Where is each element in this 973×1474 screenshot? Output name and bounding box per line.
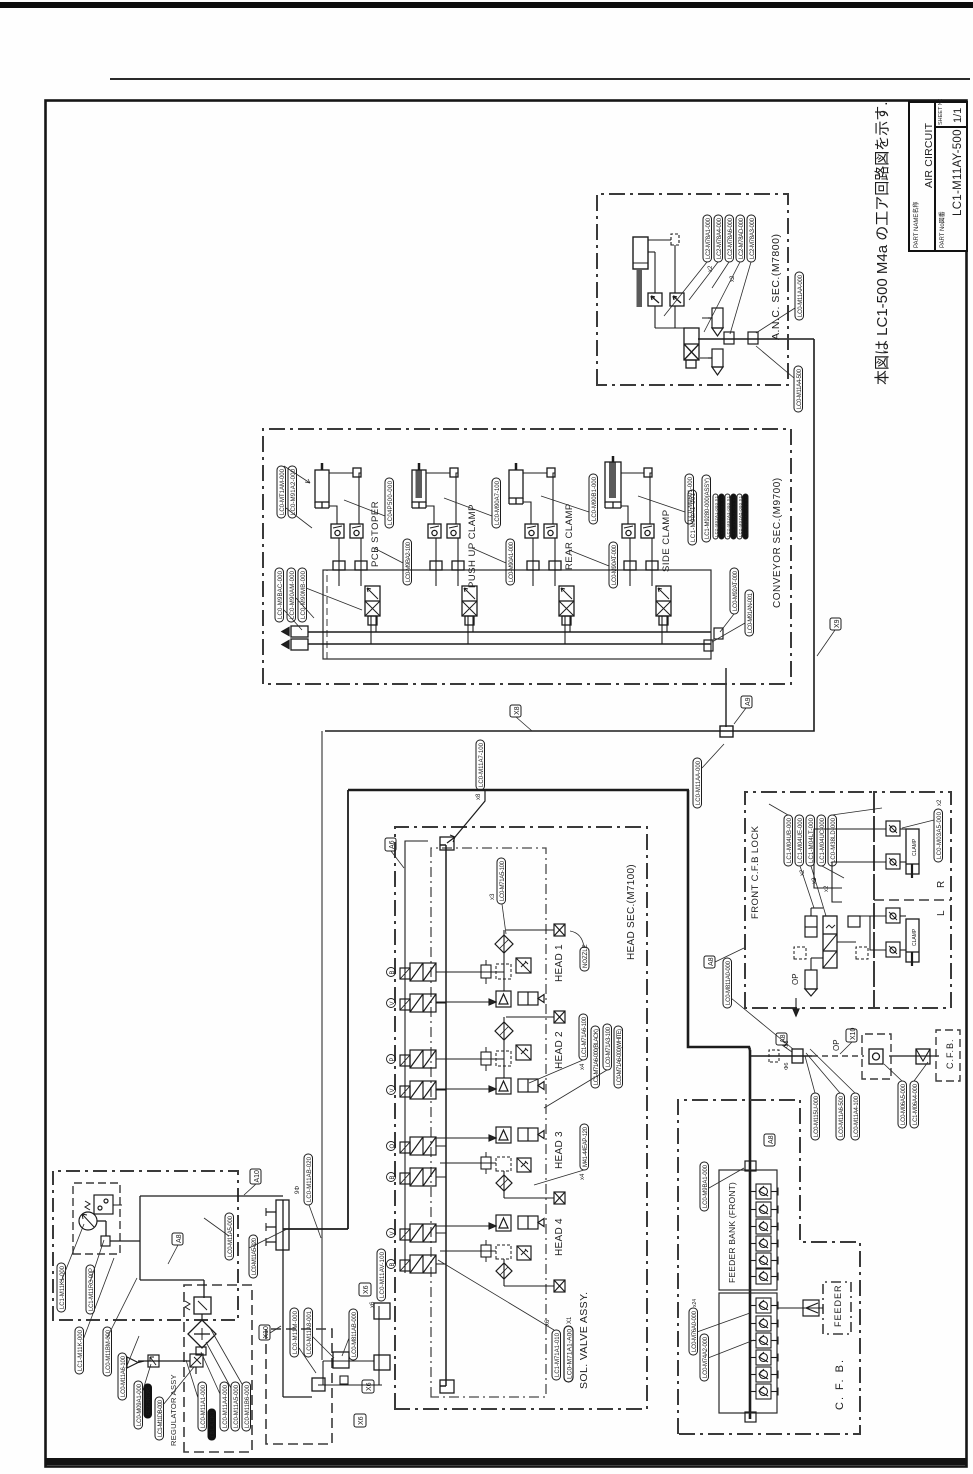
pill LC0-M90AM-000: [287, 568, 296, 622]
flow control B: [447, 524, 460, 538]
leader M06 pills: [884, 1062, 928, 1081]
manifold supply line 2: [308, 631, 711, 633]
cylinder side clamp: [605, 462, 621, 502]
svg-text:LC0-M11A5-000: LC0-M11A5-000: [234, 1384, 240, 1428]
nozzle port head3: [554, 1192, 565, 1204]
rail pilot supply line: [405, 841, 428, 1273]
svg-text:Q: Q: [390, 1144, 396, 1149]
fitting feeder right: [745, 1161, 756, 1171]
wire ANC to conveyor corner run: [325, 339, 814, 731]
node V1: [387, 999, 397, 1008]
head group 3: [436, 1124, 589, 1204]
feeder unit 12: [750, 1384, 778, 1399]
valve rail manifold: [440, 845, 446, 1386]
pill LC0-M90A7-100: [492, 478, 501, 528]
lubricator square head3: [517, 1158, 531, 1172]
wire cfb exit arrow: [793, 1008, 799, 1016]
pill LC1-M11RC-00P: [86, 1265, 95, 1314]
pill LC0-M11A8-001: [304, 1308, 313, 1357]
svg-text:LC1-M11AY-500: LC1-M11AY-500: [952, 129, 964, 216]
svg-text:HEAD 2: HEAD 2: [554, 1031, 565, 1069]
manifold fitting A: [624, 561, 636, 570]
svg-text:X1: X1: [567, 1316, 573, 1324]
valve stubs to rail: [436, 972, 446, 1264]
svg-text:x3: x3: [490, 893, 496, 900]
wire flow B to manifold: [554, 538, 556, 586]
wire flow A to cylinder: [329, 506, 337, 524]
A8 tag supply: [776, 1033, 792, 1052]
wire thick supply mid run: [688, 790, 750, 1050]
svg-text:LC2-M92A5-000 X1: LC2-M92A5-000 X1: [738, 495, 743, 537]
A8 tag low: [764, 1134, 775, 1146]
svg-text:LC0-M11A6-100: LC0-M11A6-100: [121, 1355, 127, 1397]
pill LC1-M06A4-000: [910, 1081, 919, 1128]
fitting sol inlet a: [333, 1352, 349, 1368]
node B3: [387, 1260, 397, 1269]
svg-text:LC04P500-000: LC04P500-000: [388, 480, 394, 525]
wire mufflers to valve: [700, 318, 708, 358]
pill stack small 4: [731, 494, 737, 539]
solenoid valve conveyor 1: [365, 586, 380, 625]
leader LC0-M11A4-500: [756, 346, 794, 378]
pill LC0-M11AA-000: [795, 272, 804, 320]
leader M03A5: [902, 820, 934, 828]
A10 tag: [244, 1169, 261, 1195]
svg-text:LC0-M91AN-001: LC0-M91AN-001: [748, 592, 754, 633]
cylinder rear clamp: [509, 470, 523, 498]
pill LC0-M115U-000: [811, 1093, 820, 1140]
pill LC0-M90AT-000: [609, 542, 618, 588]
pill M41-44EAP-120: [534, 1124, 589, 1185]
wire valve runs cfb: [796, 908, 856, 1008]
head group 4: [436, 1215, 565, 1292]
feeder unit 3: [750, 1219, 778, 1234]
top black bar: [0, 2, 973, 8]
solenoid valve row3: [400, 1050, 436, 1068]
clamp LR dash-dot box: [874, 792, 951, 1008]
pill LC0-M11AB-020: [304, 1154, 313, 1205]
manifold fitting B: [452, 561, 464, 570]
cylinder rod stub: [321, 463, 324, 470]
feeder unit 11: [750, 1367, 778, 1382]
svg-text:LC0-M9BA2-100: LC0-M9BA2-100: [406, 541, 412, 582]
port fitting: [353, 468, 361, 477]
svg-text:x4: x4: [580, 1173, 586, 1180]
pill LC1-M04UB-000: [784, 815, 793, 866]
muffler ANC 1: [708, 308, 723, 336]
svg-text:LC0-M09A1-000: LC0-M09A1-000: [137, 1383, 143, 1426]
svg-text:LC2-M78A4-000: LC2-M78A4-000: [717, 217, 723, 259]
regulator unit: [185, 1297, 211, 1314]
manifold fitting B: [549, 561, 561, 570]
wire flow A to manifold: [629, 538, 631, 586]
pill LC1-M71A6-100: [579, 1014, 588, 1070]
fitting sol inlet d: [340, 1376, 348, 1384]
wire to nozzle head2: [506, 1016, 554, 1018]
A9 tag: [734, 696, 752, 724]
flow control B: [350, 524, 363, 538]
node P1: [387, 1055, 397, 1064]
vacuum cylinder head3: [518, 1128, 544, 1141]
svg-text:LC0-M11A4-100: LC0-M11A4-100: [854, 1095, 860, 1137]
vacuum cylinder head2: [518, 1079, 544, 1092]
inlet fitting A: [282, 639, 308, 650]
wire valve to supply lines: [661, 616, 663, 644]
svg-text:B: B: [390, 1262, 396, 1266]
pill LC0-M92AT-000: [730, 568, 739, 614]
svg-text:C.F.B.: C.F.B.: [945, 1038, 955, 1069]
pill LC0-M11A4-100: [851, 1093, 860, 1140]
svg-text:LC2-M78A3-000: LC2-M78A3-000: [750, 217, 756, 259]
svg-text:LC0-M11A1-000: LC0-M11A1-000: [201, 1384, 207, 1428]
leader MT1AM: [286, 508, 312, 528]
svg-text:LC1-M71A6-100: LC1-M71A6-100: [582, 1016, 588, 1057]
flow control A: [525, 524, 538, 538]
svg-text:A8: A8: [780, 1034, 787, 1043]
wire cylinder port runs: [648, 240, 692, 328]
conveyor circuit group 4 SIDE CLAMP: [605, 456, 671, 644]
nozzle port head1: [554, 924, 565, 936]
pill LC2-M78A1-000: [703, 215, 712, 262]
wires regulator upper: [97, 1196, 283, 1298]
thick left border band: [45, 1458, 967, 1465]
svg-text:LC2-M92A1-000 X1: LC2-M92A1-000 X1: [714, 495, 719, 537]
svg-text:LC0-M11A5-000: LC0-M11A5-000: [228, 1215, 234, 1257]
manifold fitting A: [430, 561, 442, 570]
booster head3: [496, 1127, 511, 1143]
pill LC0-M811A0-000: [723, 958, 732, 1008]
solenoid valve conveyor 4: [656, 586, 671, 625]
feeder bank box 1: [719, 1170, 777, 1290]
pill LC2-M78A6-000: [725, 215, 734, 262]
svg-text:LC2-M78AD-000: LC2-M78AD-000: [739, 217, 745, 259]
svg-text:X10: X10: [263, 1326, 270, 1339]
coupler feeder: [803, 1300, 819, 1316]
flow control A: [428, 524, 441, 538]
svg-text:V: V: [390, 1001, 396, 1005]
wire leader arrow to cylinder 1: [284, 466, 310, 483]
pill LC1-M11DB-000: [155, 1397, 164, 1440]
pill LC0-M91A2-000: [288, 466, 297, 518]
svg-text:X9: X9: [834, 619, 841, 628]
wire to nozzle head1: [506, 929, 554, 931]
svg-text:LC0-M90MB-000: LC0-M90MB-000: [301, 570, 307, 619]
svg-text:C. F. B.: C. F. B.: [834, 1358, 846, 1410]
pill LC0-M90MB-000: [298, 568, 307, 622]
pill LC1-M71A1-010: [552, 1330, 561, 1380]
fitting sol inlet c: [374, 1355, 390, 1370]
svg-text:LC0-M91A2-000: LC0-M91A2-000: [291, 468, 297, 515]
leader inlet pills: [299, 1205, 349, 1373]
cylinder ANC: [633, 237, 648, 269]
svg-text:LC0-M71A5-100: LC0-M71A5-100: [500, 860, 506, 901]
vacuum cylinder head4: [518, 1216, 544, 1229]
leader cfb pills: [769, 804, 882, 916]
vacuum cylinder head1: [518, 992, 544, 1005]
pill stack small 2: [719, 494, 725, 539]
wire head2 manifold: [503, 1017, 505, 1078]
wire inlet vertical: [318, 1384, 382, 1386]
svg-text:LC2-M92A2-000 X1: LC2-M92A2-000 X1: [720, 495, 725, 537]
svg-text:LC2-M92A3-000 X1: LC2-M92A3-000 X1: [726, 495, 731, 537]
nozzle port head4: [554, 1280, 565, 1292]
X10 tag reg: [259, 1325, 281, 1340]
svg-text:LC1-M71A1-010: LC1-M71A1-010: [555, 1332, 561, 1377]
thin rule: [110, 78, 970, 80]
svg-text:1/1: 1/1: [952, 108, 964, 123]
wire supply to CFB dashed part: [812, 1055, 864, 1057]
inline fitting row1: [481, 1047, 491, 1071]
leader LC0-M11AA-000: [756, 308, 795, 333]
pill LC0-M71A5-100: [490, 858, 506, 934]
pill LC1-M04LT-000: [806, 815, 815, 866]
clamp cylinder R: [906, 829, 919, 878]
dashed square head3: [496, 1157, 511, 1171]
filter diamond head4: [496, 1263, 512, 1279]
pill LC0-M90A1-000: [506, 539, 515, 585]
booster head1: [496, 991, 511, 1007]
svg-text:x2: x2: [937, 799, 943, 806]
leader feeder pills: [697, 1313, 754, 1358]
conveyor circuit group 3 REAR CLAMP: [509, 463, 574, 644]
pill LC2-M78A4-000: [714, 215, 723, 262]
wire head4 manifold: [503, 1259, 505, 1286]
svg-text:本図は LC1-500 M4a の工ア回路図を示す.: 本図は LC1-500 M4a の工ア回路図を示す.: [874, 102, 891, 385]
pill LC0-M11A4-000: [220, 1382, 229, 1431]
feeder unit 5: [750, 1253, 778, 1268]
svg-text:LC0-M9BAC-000: LC0-M9BAC-000: [278, 570, 284, 619]
svg-text:PART No図番: PART No図番: [939, 211, 946, 248]
svg-text:A.N.C. SEC.(M7800): A.N.C. SEC.(M7800): [770, 234, 782, 340]
manifold box: [323, 570, 711, 659]
leader cluster: [529, 1060, 607, 1108]
svg-text:LC1-M71A6-000(BLACK): LC1-M71A6-000(BLACK): [594, 1029, 600, 1085]
svg-text:X6: X6: [363, 1285, 370, 1294]
conveyor circuit group 2 PUSH UP CLAMP: [412, 463, 477, 644]
flow control B: [544, 524, 557, 538]
pill LC1-M71A6-000: [591, 1026, 600, 1088]
svg-text:SIDE CLAMP: SIDE CLAMP: [661, 509, 672, 572]
valve ANC main: [684, 328, 699, 368]
node Q1: [387, 1142, 397, 1151]
filter diamond head1: [495, 935, 513, 953]
wire flow A to manifold: [435, 538, 437, 586]
regulator assy dashed box: [184, 1285, 252, 1452]
svg-text:LC0-M74A2-000: LC0-M74A2-000: [703, 1336, 709, 1378]
pill black resistant: [144, 1384, 152, 1418]
feeder unit 10: [750, 1350, 778, 1365]
solenoid valve row5: [400, 1137, 436, 1155]
leader M92AT: [712, 614, 745, 642]
fitting sol inlet b: [374, 1303, 390, 1319]
pill LC0-M91AN-001: [745, 590, 754, 636]
fitting dashed on supply: [769, 1050, 779, 1062]
svg-text:B: B: [390, 970, 396, 974]
check valve ANC 1: [648, 293, 662, 306]
coupler supply: [916, 1049, 930, 1064]
wire thick supply top run: [348, 789, 689, 792]
svg-text:FEEDER: FEEDER: [833, 1284, 843, 1327]
wire fitting to flow B: [553, 473, 555, 524]
cylinder rod ANC: [637, 269, 643, 307]
svg-text:LC0-M11AA-000: LC0-M11AA-000: [798, 274, 804, 317]
manifold fitting A: [333, 561, 345, 570]
inner dashed box around rail: [431, 848, 546, 1397]
wire head1 manifold: [503, 930, 505, 991]
svg-text:LC0-M11AA-000: LC0-M11AA-000: [696, 760, 702, 805]
solenoid valve row6: [400, 1168, 436, 1186]
svg-text:L: L: [936, 910, 947, 916]
X6 tag a: [359, 1283, 371, 1296]
rail top fitting: [440, 837, 454, 850]
svg-text:X6: X6: [358, 1416, 365, 1425]
pill LC0-M9501-000: [685, 474, 694, 524]
svg-text:PART NAME名称: PART NAME名称: [912, 202, 920, 248]
fitting ANC line 1: [724, 332, 734, 344]
junction fitting conveyor branch: [720, 726, 733, 737]
port fitting: [547, 468, 555, 477]
fitting feeder left: [745, 1412, 756, 1422]
leader M9BA1: [709, 1168, 744, 1188]
svg-text:LC1-M04UE-000: LC1-M04UE-000: [798, 817, 804, 863]
pill LC0-M9BA1-000: [700, 1162, 709, 1211]
dashed box sol inlet: [266, 1329, 332, 1444]
pill stack small 1: [713, 494, 719, 539]
supply drop to rail: [447, 790, 485, 843]
wire flow B to manifold: [651, 538, 653, 586]
wire long thin run to sol valve area: [321, 731, 323, 1360]
pill NOZZLE: [570, 931, 589, 971]
tee fitting supply: [792, 1049, 803, 1063]
fitting sol inlet tee: [312, 1378, 325, 1391]
svg-text:M41-44EAP-120: M41-44EAP-120: [583, 1126, 589, 1167]
solenoid valve row2: [400, 994, 436, 1012]
svg-text:CONVEYOR SEC.(M9700): CONVEYOR SEC.(M9700): [772, 477, 783, 608]
pill LC0-M11A4-500: [794, 366, 803, 412]
wire feeder drop: [777, 1307, 823, 1309]
pill LC0-M11AD-000 above: [693, 744, 724, 808]
svg-text:LC0-MT1AM-000: LC0-MT1AM-000: [280, 468, 286, 515]
X8 tag: [510, 705, 532, 731]
svg-text:LC0-M11A6-500: LC0-M11A6-500: [839, 1095, 845, 1137]
wire regulator riser: [283, 1228, 348, 1230]
pill LC0-M9500-000: [385, 478, 394, 528]
wire cylinder head to fitting: [426, 472, 450, 474]
wire fitting to flow B: [650, 473, 652, 524]
svg-text:LC0-M811AB-000: LC0-M811AB-000: [352, 1311, 358, 1357]
pill LC0-M811AB-000: [349, 1309, 358, 1360]
intake funnel: [127, 1357, 144, 1368]
solenoid valve conveyor 2: [462, 586, 477, 625]
fitting gauge: [101, 1236, 110, 1246]
solenoid valve conveyor 3: [559, 586, 574, 625]
svg-text:SHEET NO.: SHEET NO.: [938, 99, 944, 125]
svg-text:AIR CIRCUIT: AIR CIRCUIT: [923, 122, 935, 188]
port fitting ANC cylinder: [671, 234, 679, 245]
clamp LR divider: [874, 899, 951, 901]
pill LC0-M09A1-000: [134, 1381, 143, 1429]
wire valve to supply lines: [564, 616, 566, 644]
inline fitting row8: [481, 1240, 491, 1262]
svg-text:REAR CLAMP: REAR CLAMP: [564, 503, 575, 570]
svg-text:x2: x2: [800, 869, 806, 876]
flow control A: [331, 524, 344, 538]
leader 811A0: [731, 998, 793, 1049]
svg-text:LC2-M78A6-000: LC2-M78A6-000: [728, 217, 734, 259]
regulator dash-dot box: [53, 1171, 238, 1320]
pill LC0-M11M-000: [290, 1308, 299, 1357]
svg-text:FEEDER BANK (FRONT): FEEDER BANK (FRONT): [727, 1182, 737, 1283]
svg-text:A10: A10: [254, 1170, 261, 1183]
svg-text:LC1-M04UB-000: LC1-M04UB-000: [787, 817, 793, 863]
filter diamond head2: [495, 1022, 513, 1040]
lubricator square head2: [516, 1045, 531, 1060]
wire supply to CFB solid part: [750, 1055, 812, 1057]
X9 tag: [817, 618, 841, 656]
check valve supply: [869, 1049, 883, 1064]
flow control B: [641, 524, 654, 538]
CFB dashed box: [936, 1030, 960, 1081]
feeder unit 2: [750, 1202, 778, 1217]
leader group pills: [344, 496, 685, 566]
svg-text:LC0-M11A4-500: LC0-M11A4-500: [797, 368, 803, 409]
svg-text:HEAD SEC.(M7100): HEAD SEC.(M7100): [626, 864, 637, 960]
svg-text:LC0-M76A0-000: LC0-M76A0-000: [692, 1310, 698, 1352]
svg-text:LC0-M38LD-000: LC0-M38LD-000: [831, 817, 837, 863]
wire thick supply feeder run: [749, 1050, 752, 1419]
flow control A: [622, 524, 635, 538]
feeder unit 4: [750, 1236, 778, 1251]
svg-text:x2: x2: [708, 265, 714, 272]
pill LC0-M76A0-000: [689, 1299, 698, 1355]
wire row8 drop: [440, 1250, 496, 1252]
rail bottom fitting: [440, 1380, 454, 1393]
pill LC0-M38LD-000: [828, 815, 837, 866]
check valve cfb 3: [886, 908, 900, 923]
svg-text:A8: A8: [176, 1234, 183, 1243]
svg-text:LC1-M06A4-000: LC1-M06A4-000: [913, 1083, 919, 1125]
wire inlet horizontal: [323, 1360, 374, 1362]
CFB feeder L-shaped dash-dot box: [678, 1100, 860, 1434]
pill LC1-M11K-000: [75, 1327, 84, 1374]
pill LC1-M04UE-000: [795, 815, 804, 866]
manifold fitting B: [355, 561, 367, 570]
inlet fitting B: [282, 626, 308, 637]
svg-text:OP: OP: [791, 973, 800, 985]
fitting filter: [196, 1347, 206, 1355]
svg-text:9Φ: 9Φ: [295, 1186, 301, 1194]
wire ANC main supply vertical: [698, 338, 814, 340]
svg-text:A9: A9: [745, 697, 752, 706]
pill LC0-M11A1-000: [198, 1382, 207, 1431]
wires regulator lower: [138, 1314, 202, 1374]
feeder bank box 2: [719, 1293, 777, 1413]
svg-text:CLAMP: CLAMP: [912, 838, 918, 856]
solenoid valve row7: [400, 1224, 436, 1242]
pill LC1-M04UC-000: [817, 815, 826, 866]
check valve cfb 1: [886, 821, 900, 836]
wire flow A to cylinder: [621, 506, 628, 524]
A8 tag reg: [168, 1233, 183, 1264]
fitting cfb: [848, 916, 860, 927]
pill LC1-M9280-000 ASSY: [702, 475, 711, 542]
pill LC1-M11K1-000: [57, 1263, 66, 1312]
leader M9BAC: [284, 588, 362, 630]
svg-text:x6: x6: [370, 1301, 376, 1308]
svg-text:LC0-M92AT-000: LC0-M92AT-000: [733, 570, 739, 611]
front cfb lock dash-dot box: [745, 792, 874, 1008]
conveyor section dash-dot box: [263, 429, 791, 684]
